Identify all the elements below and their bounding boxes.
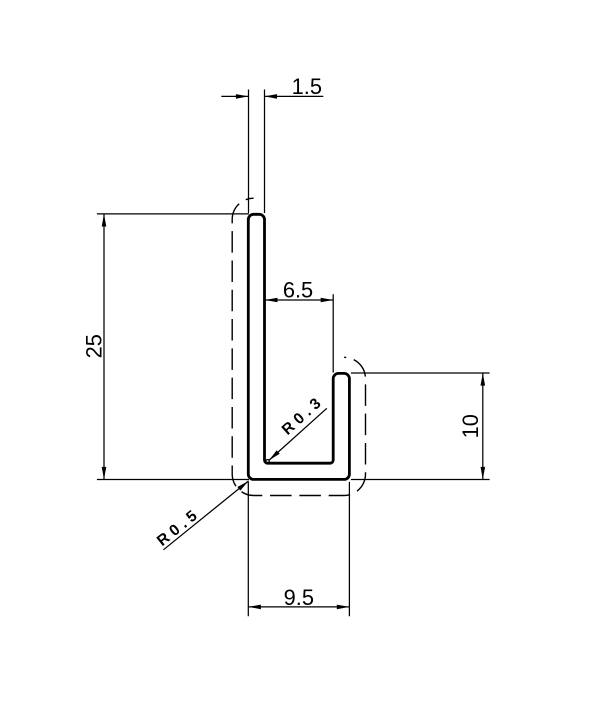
svg-text:R0.5: R0.5 xyxy=(154,505,204,550)
dim 25 extension lines xyxy=(97,213,249,215)
J-profile solid outline xyxy=(248,214,349,479)
leader R0.5 line xyxy=(163,481,248,550)
svg-text:9.5: 9.5 xyxy=(284,585,314,610)
R0.3 fillet circle mark xyxy=(266,460,269,463)
svg-text:1.5: 1.5 xyxy=(292,74,322,99)
dim 9.5 extension lines xyxy=(247,482,249,616)
dim 1.5 dimension line xyxy=(221,95,248,97)
dim 10 dimension line xyxy=(482,373,484,480)
svg-text:R0.3: R0.3 xyxy=(279,392,328,439)
dim 25 dimension line xyxy=(103,214,105,480)
dim 1.5 extension lines xyxy=(248,90,250,214)
dim 6.5 dimension line xyxy=(265,299,333,301)
dashed offset outline xyxy=(232,198,365,495)
dim 10 extension lines xyxy=(351,372,490,374)
leader R0.3 line xyxy=(269,408,327,460)
svg-text:10: 10 xyxy=(458,414,483,438)
dim 6.5 extension line xyxy=(332,294,334,372)
dim 9.5 dimension line xyxy=(248,606,349,608)
svg-text:25: 25 xyxy=(82,334,107,358)
svg-text:6.5: 6.5 xyxy=(283,277,313,302)
